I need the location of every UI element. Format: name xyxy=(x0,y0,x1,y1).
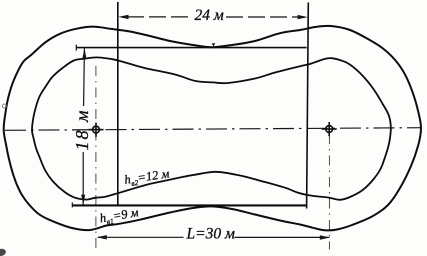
svg-text:18 м: 18 м xyxy=(72,109,92,151)
svg-text:L=30 м: L=30 м xyxy=(186,226,235,243)
svg-text:24 м: 24 м xyxy=(195,7,224,24)
